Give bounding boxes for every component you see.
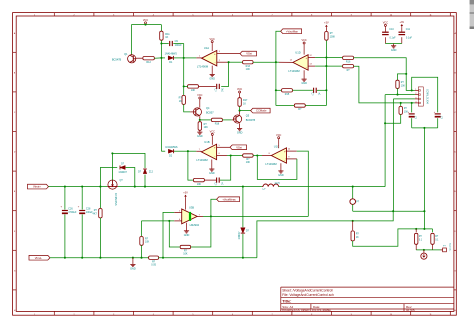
resistor R12	[143, 57, 155, 60]
svg-text:1mH: 1mH	[274, 182, 279, 185]
svg-text:C10: C10	[389, 28, 394, 31]
output cap 1	[409, 113, 415, 115]
U2B GND	[186, 223, 188, 231]
wire	[142, 220, 175, 222]
svg-text:+3V: +3V	[183, 192, 188, 195]
svg-text:U1D: U1D	[295, 50, 300, 54]
svg-text:BC547B: BC547B	[112, 58, 122, 61]
bleeder resistor	[99, 187, 101, 209]
svg-text:1N4007: 1N4007	[239, 231, 241, 240]
node junction	[423, 127, 425, 129]
svg-text:KiCad E.D.A. kicad 4.0.0-rc1-: KiCad E.D.A. kicad 4.0.0-rc1-stable	[282, 308, 331, 312]
svg-text:10K: 10K	[191, 89, 196, 92]
svg-text:9: 9	[288, 157, 289, 159]
U2B feedback loop	[169, 221, 180, 247]
U2B - input pin	[174, 220, 182, 222]
svg-text:GND: GND	[209, 78, 215, 81]
U1B + input pin with VSet label	[217, 146, 230, 148]
svg-text:CCMode: CCMode	[256, 109, 267, 113]
svg-text:VSet: VSet	[246, 52, 252, 56]
svg-text:100K: 100K	[330, 36, 336, 38]
wire	[144, 175, 146, 187]
wire to sense resistor top row	[353, 229, 417, 246]
sense resistor 1	[415, 229, 417, 232]
U2B output pin	[197, 215, 203, 217]
svg-text:File: VoltageAndCurrentControl: File: VoltageAndCurrentControl.sch	[282, 293, 334, 297]
U1D VCC	[303, 45, 305, 55]
wire	[136, 57, 143, 59]
svg-text:1N4148WS: 1N4148WS	[165, 146, 178, 149]
svg-text:R12: R12	[146, 61, 151, 64]
wire	[174, 57, 184, 59]
Q5 emitter to ground	[239, 123, 241, 128]
wire	[184, 104, 191, 112]
+3V power above U2B	[185, 198, 187, 210]
+3V power symbol	[325, 28, 327, 32]
svg-text:1: 1	[199, 56, 200, 58]
bypass cap C10 with VCC	[384, 27, 386, 31]
wire	[204, 179, 216, 181]
svg-text:Title:: Title:	[282, 298, 291, 303]
inductor L in output rail	[263, 184, 279, 187]
caps bottom wire	[412, 127, 438, 129]
node junction	[210, 215, 212, 217]
svg-text:VCC: VCC	[383, 22, 388, 25]
resistor row2 from U1D - net	[326, 65, 342, 67]
power symbol VCC	[145, 22, 147, 24]
svg-text:13: 13	[310, 64, 312, 66]
svg-text:C11: C11	[406, 28, 411, 31]
svg-text:VCC: VCC	[210, 131, 215, 134]
node junction	[230, 154, 232, 156]
wire	[198, 85, 216, 87]
svg-text:LT1490M: LT1490M	[288, 69, 300, 73]
pin3 riser down to current sense net	[392, 99, 394, 211]
long vertical from U1A output node down to Q4 base resistor	[183, 58, 185, 96]
ground symbol on bottom rail	[132, 257, 134, 259]
global label CCMode	[251, 108, 271, 113]
op-amp U1B LT1490	[201, 144, 216, 159]
sense resistor 2	[432, 229, 434, 232]
bypass riser to cap2	[412, 77, 438, 112]
U1C GND	[280, 163, 282, 171]
wire pin3 row	[393, 98, 415, 100]
global label +VoutMeas	[211, 199, 217, 216]
wire	[220, 156, 231, 181]
feedback resistor 10K	[180, 245, 191, 248]
single pin connector Current+	[441, 249, 443, 251]
node junction	[160, 57, 162, 59]
svg-text:Vbrut+: Vbrut+	[33, 185, 41, 189]
svg-text:LT1490M: LT1490M	[265, 162, 277, 166]
U1B feedback loop down	[188, 151, 194, 180]
gate network wire	[112, 153, 145, 168]
svg-text:Current+: Current+	[448, 243, 451, 252]
svg-text:VCC: VCC	[143, 19, 148, 22]
node junction	[392, 210, 394, 212]
filter cap C26	[64, 187, 66, 210]
svg-text:100nF: 100nF	[175, 44, 183, 47]
U1C - input loop	[286, 158, 297, 160]
svg-text:C26: C26	[68, 207, 73, 210]
U1A feedback: wire down from minus input	[221, 62, 228, 86]
resistor R16 on U1D + net	[326, 57, 342, 59]
U1B VCC	[211, 136, 213, 145]
rail continues to riser	[279, 186, 385, 188]
fuse-circle component below rail junction	[352, 187, 354, 199]
VCC above R17	[239, 94, 241, 98]
svg-text:GND: GND	[184, 234, 190, 237]
node junction	[239, 110, 241, 112]
resistor divider	[396, 80, 399, 88]
wire to U1A output	[184, 57, 197, 59]
svg-text:R18: R18	[215, 123, 220, 126]
ground	[199, 130, 201, 132]
node junction	[256, 154, 258, 156]
wire	[222, 119, 231, 121]
svg-text:14: 14	[290, 60, 292, 62]
wire to pin4 row	[354, 66, 415, 103]
svg-text:1: 1	[415, 89, 416, 91]
svg-text:VSet: VSet	[236, 145, 242, 149]
wire	[276, 31, 281, 62]
output rail wire	[49, 186, 108, 188]
resistor below Q4	[199, 120, 201, 122]
wire Q5 collector up	[239, 111, 241, 115]
svg-text:Id: 5/5: Id: 5/5	[406, 308, 415, 312]
sense top row	[416, 228, 432, 230]
svg-text:6: 6	[219, 153, 220, 155]
resistor below pin4	[400, 103, 402, 107]
wire	[154, 57, 161, 59]
title block	[281, 286, 454, 288]
wire rail return riser	[257, 211, 393, 258]
svg-text:VCC: VCC	[210, 38, 215, 41]
resistor R11	[160, 31, 163, 40]
diode D2 1N4148WS	[161, 150, 165, 152]
svg-text:0.1uF: 0.1uF	[406, 37, 413, 40]
svg-text:10K: 10K	[401, 85, 406, 87]
svg-text:U1B: U1B	[204, 140, 209, 144]
output cap 2	[435, 113, 441, 115]
node junction	[396, 94, 398, 96]
svg-text:Q5: Q5	[246, 114, 250, 117]
node junction	[183, 85, 185, 87]
wire	[385, 114, 401, 123]
op-amp U1D LT1490	[293, 55, 308, 70]
svg-text:BC857: BC857	[206, 112, 214, 115]
transistor Q1	[128, 55, 136, 63]
svg-text:1K: 1K	[179, 100, 182, 103]
wire	[173, 43, 183, 45]
sense bottom wire	[416, 249, 440, 251]
node junction	[384, 122, 386, 124]
svg-text:3: 3	[415, 97, 416, 99]
Q4 VCC	[199, 100, 201, 108]
U1D GND	[303, 70, 305, 79]
series resistor	[243, 154, 254, 157]
svg-text:10K: 10K	[246, 161, 251, 164]
node junction	[423, 249, 425, 251]
svg-text:1N4007: 1N4007	[118, 171, 127, 174]
transistor Q5 BC847B	[234, 115, 242, 123]
svg-text:3: 3	[219, 51, 220, 53]
svg-text:U3B: U3B	[189, 206, 194, 210]
resistor from ground-sense row down	[352, 221, 354, 230]
wire	[174, 150, 188, 152]
svg-text:2: 2	[415, 93, 416, 95]
power flag circle	[423, 250, 425, 253]
U1B GND	[211, 160, 213, 169]
resistor R18	[211, 118, 222, 121]
wire	[253, 155, 257, 157]
svg-text:12: 12	[310, 55, 312, 57]
U1C + input to output rail sense	[286, 150, 297, 152]
node junction	[411, 89, 413, 91]
resistor R to +3V	[325, 32, 328, 41]
wire Q4 collector	[199, 116, 201, 120]
U1A + input pin	[217, 53, 240, 55]
wire	[161, 43, 168, 45]
zener diode gate protect	[143, 169, 147, 174]
svg-text:1K: 1K	[356, 237, 359, 239]
svg-text:10K: 10K	[145, 241, 150, 244]
feedback row2 resistor	[276, 105, 294, 107]
node junction	[199, 119, 201, 121]
bottom rail wire	[50, 257, 149, 259]
svg-text:R16: R16	[346, 60, 351, 63]
wire +VoutMan node down to feedback rows	[275, 62, 277, 105]
bypass diode D 1N4007 across MOSFET	[100, 168, 117, 187]
svg-text:10K: 10K	[197, 183, 202, 186]
node junction	[187, 150, 189, 152]
resistor R17	[238, 98, 241, 107]
svg-text:BC847B: BC847B	[246, 119, 256, 122]
svg-text:GND: GND	[301, 82, 307, 85]
svg-text:5: 5	[219, 145, 220, 147]
sense net riser	[423, 128, 425, 229]
diode D1 1N4148WS	[168, 56, 173, 60]
U1B - input pin	[217, 155, 227, 157]
svg-text:C28: C28	[86, 207, 91, 210]
divider resistor on minus input	[141, 221, 143, 236]
svg-text:10K: 10K	[246, 68, 251, 71]
svg-text:GND: GND	[237, 132, 243, 135]
global label VoutIn-	[29, 255, 50, 260]
cap1 riser	[411, 103, 413, 113]
wire pin2 row from rail riser	[385, 94, 415, 96]
svg-text:Vbrut-: Vbrut-	[35, 256, 42, 260]
bypass cap C11 with +3V	[401, 27, 403, 31]
node junction	[275, 61, 277, 63]
P-MOSFET pass transistor	[108, 180, 117, 189]
wire	[317, 89, 326, 91]
resistor R feedback U1A	[188, 85, 199, 88]
feedback row1: resistor R15	[276, 89, 281, 91]
U1D + input pin	[308, 57, 315, 59]
svg-text:2: 2	[219, 60, 220, 62]
wire	[130, 25, 132, 55]
node junction	[183, 57, 185, 59]
wire R16 to connector corner	[354, 58, 407, 74]
svg-text:LM2904: LM2904	[190, 223, 200, 227]
svg-text:GND: GND	[278, 174, 284, 177]
node junctions on x=326 vertical	[325, 56, 327, 58]
wire	[160, 40, 162, 58]
svg-text:+VoutMeas: +VoutMeas	[222, 197, 236, 201]
node junction	[228, 61, 230, 63]
wire to CCMode label	[240, 110, 251, 112]
svg-text:+VoutMan: +VoutMan	[286, 29, 298, 33]
node junction	[411, 102, 413, 104]
vertical x=326 with bias resistor to +3V	[325, 40, 327, 105]
node junction	[423, 210, 425, 212]
svg-text:U1A: U1A	[204, 46, 209, 50]
wire	[397, 88, 399, 94]
filter cap C28	[81, 187, 83, 210]
capacitor C12	[216, 84, 218, 89]
svg-text:1K: 1K	[243, 102, 246, 105]
svg-text:VCC: VCC	[237, 88, 242, 91]
svg-text:CONN_01X04: CONN_01X04	[426, 89, 428, 104]
wire pin1 row	[406, 74, 415, 91]
U1C VCC	[278, 140, 280, 149]
wire	[293, 89, 313, 91]
U1A - input pin	[217, 61, 229, 63]
svg-text:1K: 1K	[165, 36, 168, 39]
global label VoutIn+	[28, 184, 49, 189]
current shunt resistor in rail	[149, 256, 159, 259]
U1D output pin	[276, 61, 279, 63]
U1A VCC power pin	[211, 43, 213, 51]
resistor to Q4 base	[182, 95, 185, 104]
wire	[305, 105, 326, 107]
long vertical from R11 node down to D2	[160, 58, 162, 151]
node junction	[160, 42, 162, 44]
rail riser x=385	[384, 95, 386, 187]
feedback resistor	[193, 178, 204, 181]
wire	[159, 257, 257, 259]
rail voltage divider / shunt diode D 1N4007 to bottom rail	[242, 187, 244, 228]
op-amp U3B LM2904	[182, 209, 198, 224]
feedback capacitor	[216, 178, 218, 183]
svg-text:4K7: 4K7	[93, 212, 98, 215]
connector P CONN_01X04	[418, 87, 423, 106]
svg-text:GND: GND	[130, 267, 136, 270]
wire	[200, 119, 211, 121]
U1D - input pin	[308, 65, 315, 67]
svg-text:0.1uF: 0.1uF	[390, 37, 397, 40]
op-amp U1C LT1490	[257, 155, 262, 157]
svg-text:GND: GND	[197, 135, 203, 138]
ground	[393, 44, 395, 46]
svg-text:8: 8	[269, 153, 270, 155]
svg-text:LT1490M: LT1490M	[196, 158, 208, 162]
wire	[184, 85, 188, 87]
svg-text:GND: GND	[209, 172, 215, 175]
wire + input to bottom rail tap	[163, 212, 174, 257]
caps ground wire	[385, 43, 401, 45]
power rail VCC top-left	[131, 24, 161, 26]
svg-text:7: 7	[199, 149, 200, 151]
svg-text:LT1490M: LT1490M	[197, 64, 209, 68]
op-amp U1A LT1490	[202, 51, 217, 66]
svg-text:Q1: Q1	[124, 53, 128, 56]
scrollbar fragment	[470, 0, 474, 29]
svg-text:10K: 10K	[204, 126, 209, 129]
svg-text:GND: GND	[391, 49, 397, 52]
svg-text:VCC: VCC	[197, 94, 202, 97]
wire to U1B output	[188, 150, 196, 152]
node junction	[111, 152, 113, 154]
svg-text:10K: 10K	[183, 253, 188, 256]
svg-text:+3V: +3V	[400, 21, 405, 24]
svg-text:IRF9540NS: IRF9540NS	[114, 193, 117, 206]
node junction	[400, 102, 402, 104]
wire U1B out to U1C	[231, 155, 243, 157]
wire	[161, 57, 165, 59]
svg-text:+3V: +3V	[324, 22, 329, 25]
global label VSet	[240, 51, 257, 56]
U2B + input pin	[174, 211, 182, 213]
global label +VoutMan	[281, 29, 302, 34]
svg-text:4700uF: 4700uF	[68, 211, 77, 214]
svg-text:VCC: VCC	[301, 39, 306, 42]
U1A GND power pin	[211, 66, 213, 75]
node junction	[405, 73, 407, 75]
node junction	[168, 220, 170, 222]
wire to divider resistor	[398, 74, 407, 80]
wire	[253, 61, 276, 63]
wire	[229, 61, 243, 63]
svg-text:1N4148WS: 1N4148WS	[165, 53, 178, 56]
wire y=211 row	[353, 210, 425, 212]
transistor Q4 BC857	[193, 108, 201, 116]
wire	[191, 216, 211, 247]
svg-text:R15: R15	[285, 93, 290, 96]
capacitor feedback	[313, 88, 315, 93]
svg-text:0.05: 0.05	[151, 263, 156, 266]
capacitor C9	[169, 41, 171, 46]
svg-text:10: 10	[288, 149, 290, 151]
MOSFET gate wire from Q1 emitter	[111, 153, 113, 180]
svg-text:4: 4	[415, 101, 416, 103]
wire	[160, 25, 162, 32]
resistor R13	[243, 61, 254, 64]
svg-text:VCC: VCC	[276, 134, 281, 137]
